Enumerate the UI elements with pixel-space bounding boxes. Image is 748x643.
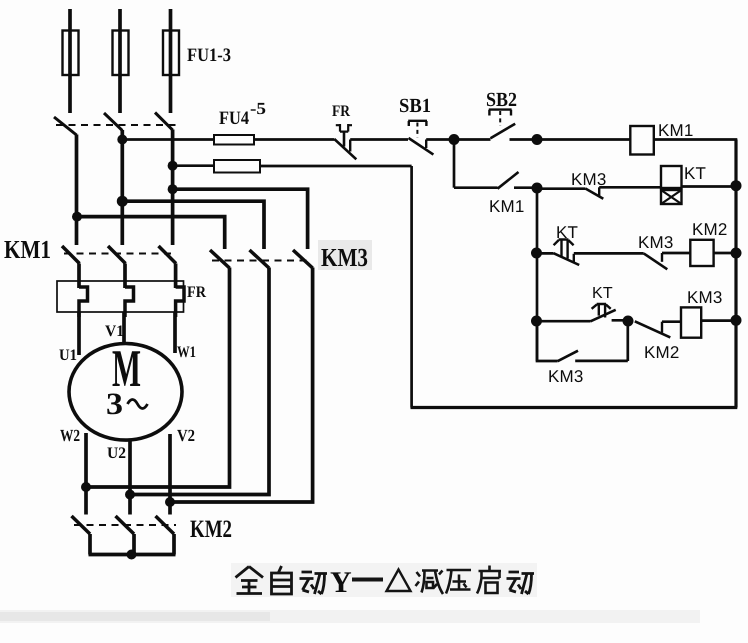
node control tap 1 on L2 (117, 135, 127, 145)
wire L1 fuse to switch (68, 75, 72, 113)
contactor KM2 main contact pole 1 (72, 516, 91, 534)
wire bypass up to rung4 (626, 321, 629, 361)
node KM3 tap B on L2 (117, 196, 128, 207)
svg-text:FU4: FU4 (219, 108, 249, 129)
wire L2 fuse to switch (118, 75, 122, 113)
svg-text:KM3: KM3 (638, 233, 674, 252)
wire center column (536, 188, 539, 361)
contactor KM3 main contact pole 3 (293, 250, 313, 268)
svg-text:FU1-3: FU1-3 (187, 45, 231, 66)
wire U2 down to KM2 (128, 495, 132, 515)
svg-text:KM2: KM2 (190, 516, 232, 543)
node center rung3 (531, 248, 542, 259)
wire bypass branch (537, 321, 558, 361)
wire V2 to KM3 pole C (170, 268, 313, 503)
aux contact KM3 (NC rung3) (644, 253, 691, 269)
wire KM3 branch A horizontal (77, 217, 225, 249)
node right column rung3 (731, 248, 742, 259)
wire W2 to KM3 pole A (86, 268, 230, 488)
svg-text:SB2: SB2 (486, 89, 517, 111)
caption dash (352, 578, 383, 582)
wire rung2 left (537, 187, 585, 190)
caption char quan (236, 567, 264, 594)
wire phase C switch to KM1 (171, 130, 175, 246)
thermal contact FR (NC) (334, 124, 408, 159)
motor M 3-phase (69, 344, 182, 441)
svg-text:KM3: KM3 (321, 243, 368, 272)
aux contact KM2 (NC interlock rung4) (635, 321, 681, 337)
svg-text:W2: W2 (60, 426, 80, 445)
wire control L2 to fuse FU5 (173, 164, 214, 167)
contactor coil KM1 (630, 126, 654, 155)
svg-text:KM3: KM3 (571, 170, 607, 189)
wire control L1 to fuse FU4 (122, 138, 214, 141)
disconnect switch QS pole 2 (104, 113, 122, 131)
wire KM3 branch B horizontal (122, 201, 264, 249)
wire rung4 left (537, 320, 591, 323)
wire V2 lead (168, 434, 172, 502)
wire phase A switch to KM1 (75, 135, 79, 246)
aux contact KM1 (NO latch) (454, 172, 537, 189)
FR heater element 2 (125, 287, 134, 317)
node star point (127, 550, 137, 560)
caption char qi (477, 566, 501, 594)
aux contact KM3 (NC interlock rung2) (585, 187, 661, 199)
KM1 linkage dashed (64, 253, 176, 255)
svg-text:U1: U1 (59, 347, 77, 364)
svg-text:3: 3 (106, 386, 123, 421)
node control B (532, 134, 543, 145)
wire W2 lead (84, 433, 88, 487)
aux contact KM3 (NO bypass) (558, 351, 628, 362)
wire L2 top feed (118, 9, 122, 30)
svg-text:KM1: KM1 (489, 197, 525, 216)
svg-text:U2: U2 (107, 445, 126, 462)
svg-text:KM1: KM1 (4, 235, 51, 264)
fuse FU1 (63, 30, 79, 75)
wire phase B KM1 to FR (123, 264, 127, 289)
disconnect switch QS pole 3 (155, 113, 173, 131)
node right column rung2 (731, 180, 742, 191)
wire latch branch down (453, 140, 456, 188)
FR heater element 1 (79, 287, 88, 317)
fuse FU5 (214, 160, 412, 173)
wire L3 fuse to switch (169, 75, 173, 113)
caption triangle (387, 570, 411, 592)
contactor KM3 main contact pole 1 (210, 250, 230, 268)
wire V1 lead (122, 312, 126, 346)
contactor KM2 main contact pole 2 (116, 516, 135, 534)
wire U2 lead (128, 440, 132, 495)
wire KT coil to right column (682, 185, 738, 188)
wire KM2 coil to right column (714, 252, 737, 255)
svg-text:KM2: KM2 (692, 220, 728, 239)
wire left control column (410, 166, 413, 408)
node center rung4 (531, 316, 542, 327)
svg-text:SB1: SB1 (399, 95, 431, 117)
svg-text:Y: Y (330, 566, 352, 599)
svg-text:KM1: KM1 (658, 121, 694, 140)
pushbutton SB1 (NC, stop) (408, 121, 454, 155)
contactor coil KM3 (681, 307, 701, 337)
wire W2 down to KM2 (84, 487, 88, 515)
thermal relay FR box (57, 281, 184, 312)
node control A (449, 134, 460, 145)
contactor KM2 main contact pole 3 (156, 516, 175, 534)
timed contact KT (NC delayed opening) (554, 240, 644, 266)
wire KM3 coil to right column (701, 319, 737, 322)
node control tap 2 on L3 (168, 161, 178, 171)
svg-text:FR: FR (187, 284, 206, 301)
svg-text:KM3: KM3 (687, 288, 723, 307)
QS linkage dashed (56, 124, 176, 126)
svg-text:-5: -5 (250, 99, 266, 118)
caption char dong1 (300, 572, 328, 594)
wire right control column (734, 140, 737, 408)
wire KM3 branch C horizontal (173, 189, 308, 249)
caption char dong2 (507, 572, 535, 594)
time relay coil KT (661, 166, 682, 204)
svg-text:KT: KT (684, 164, 706, 183)
node V2 junction (165, 497, 175, 507)
wire control bottom rail (411, 406, 738, 409)
svg-text:W1: W1 (177, 344, 196, 361)
wire rung3 left (537, 252, 554, 255)
wire KM1 coil to right column (654, 138, 738, 141)
contactor KM1 main contact pole 2 (108, 246, 126, 264)
wire phase B switch to KM1 (120, 130, 124, 245)
node right column rung4 (731, 315, 742, 326)
wire U2 to KM3 pole B (130, 268, 269, 495)
fuse FU4 (214, 135, 334, 145)
KM3 linkage dashed (212, 260, 310, 262)
svg-text:V2: V2 (177, 426, 195, 445)
svg-text:FR: FR (332, 103, 350, 120)
svg-text:KM2: KM2 (644, 343, 680, 362)
node U2 junction (125, 490, 135, 500)
FR heater element 3 (176, 287, 184, 317)
svg-text:V1: V1 (105, 323, 124, 340)
pushbutton SB2 (NO, start) (454, 110, 537, 140)
star point bar (89, 534, 176, 555)
wire L3 top feed (169, 9, 173, 30)
wire L1 top feed (68, 9, 72, 30)
contactor coil KM2 (690, 240, 713, 266)
node W2 junction (81, 482, 91, 492)
caption background (231, 563, 537, 597)
wire U1 lead (77, 312, 81, 355)
node KM3 tap A on L1 (72, 212, 82, 222)
wire phase A KM1 to FR (77, 264, 81, 289)
caption char zi (272, 566, 292, 594)
node control C (532, 183, 543, 194)
svg-text:KT: KT (556, 223, 578, 242)
timed contact KT (NO delayed closing) (591, 304, 629, 321)
svg-text:KM3: KM3 (548, 367, 584, 386)
node KM3 tap C on L3 (168, 184, 178, 194)
contactor KM1 main contact pole 3 (159, 246, 177, 264)
svg-text:KT: KT (592, 285, 613, 302)
node rung4 mid (623, 316, 634, 327)
smudge band bottom (0, 610, 700, 623)
wire phase C KM1 to FR (174, 264, 178, 289)
contactor KM1 main contact pole 1 (62, 246, 80, 264)
caption char ya (446, 570, 471, 594)
wire to coil KM1 (537, 138, 630, 141)
disconnect switch QS pole 1 (54, 117, 77, 135)
wire V2 down to KM2 (168, 502, 172, 515)
contactor KM3 main contact pole 2 (250, 250, 270, 268)
label KM3 main bg (318, 240, 372, 270)
caption char jian (416, 571, 444, 595)
fuse FU2 (113, 30, 129, 75)
fuse FU3 (163, 30, 179, 75)
KM2 linkage dashed (74, 524, 176, 526)
wire W1 lead (173, 312, 177, 353)
